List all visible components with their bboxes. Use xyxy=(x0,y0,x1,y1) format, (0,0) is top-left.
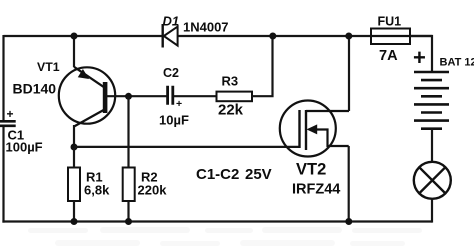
svg-text:BD140: BD140 xyxy=(13,80,57,96)
resistor R1 xyxy=(68,148,110,221)
svg-text:10µF: 10µF xyxy=(159,113,189,128)
svg-text:25V: 25V xyxy=(245,166,272,183)
svg-text:7A: 7A xyxy=(379,48,398,64)
junction dot bottom R2 xyxy=(125,218,132,225)
junction dot top middle xyxy=(269,33,276,40)
svg-text:BAT 12: BAT 12 xyxy=(440,57,474,69)
svg-text:VT1: VT1 xyxy=(37,60,60,74)
svg-text:R3: R3 xyxy=(222,74,239,89)
wire: VT1 base to C2 xyxy=(106,95,167,97)
wire: VT1 collector down xyxy=(73,125,75,148)
svg-text:220k: 220k xyxy=(138,182,168,197)
svg-text:+: + xyxy=(176,98,182,110)
lamp xyxy=(414,162,451,199)
wire: lamp to bottom rail xyxy=(431,199,433,223)
junction dot bottom R1 xyxy=(71,218,78,225)
capacitor C1 xyxy=(0,107,43,155)
wire: top rail left of diode xyxy=(4,35,163,37)
wire: VT2 drain to top rail xyxy=(348,36,350,111)
svg-text:1N4007: 1N4007 xyxy=(183,20,229,35)
junction dot top-left xyxy=(71,33,78,40)
svg-text:22k: 22k xyxy=(218,102,244,119)
junction dot collector node xyxy=(71,144,78,151)
svg-text:VT2: VT2 xyxy=(296,161,326,179)
junction dot top right xyxy=(345,33,352,40)
resistor R3 xyxy=(217,74,253,119)
svg-text:6,8k: 6,8k xyxy=(84,182,110,197)
wire: gate wire to VT2 xyxy=(74,146,300,148)
junction dot base node xyxy=(125,93,132,100)
wire: fuse to battery xyxy=(410,36,432,72)
battery BAT 12 xyxy=(413,45,474,129)
wire: VT2 source to bottom rail xyxy=(348,146,350,222)
svg-text:FU1: FU1 xyxy=(378,14,402,28)
faint bottom smudge band xyxy=(28,227,422,246)
resistor R2 xyxy=(123,96,167,221)
svg-text:100µF: 100µF xyxy=(6,140,43,155)
junction dot bottom right xyxy=(345,218,352,225)
wire: battery to lamp xyxy=(431,129,433,162)
MOSFET VT2 xyxy=(280,101,349,198)
wire: R3 to top rail xyxy=(252,36,273,96)
svg-text:+: + xyxy=(413,45,426,70)
svg-text:D1: D1 xyxy=(163,14,180,29)
svg-text:+: + xyxy=(7,107,14,121)
wire: bottom rail xyxy=(2,220,432,222)
svg-text:C1-C2: C1-C2 xyxy=(196,166,239,183)
wire: top rail right of diode xyxy=(178,35,433,37)
transistor VT1 xyxy=(13,60,116,127)
wire: left rail xyxy=(2,35,4,223)
wire: VT1 emitter to top rail xyxy=(73,35,75,67)
fuse FU1 xyxy=(371,14,410,64)
diode D1 xyxy=(163,14,229,48)
svg-text:C2: C2 xyxy=(163,66,179,80)
wire: C2 to R3 xyxy=(174,95,217,97)
capacitor C2 xyxy=(159,66,189,128)
svg-text:IRFZ44: IRFZ44 xyxy=(292,181,340,197)
